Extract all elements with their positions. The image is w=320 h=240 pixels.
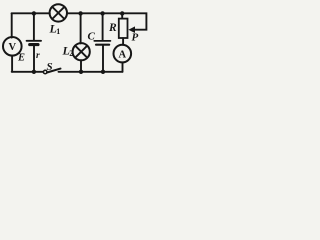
- svg-text:R: R: [108, 22, 117, 34]
- svg-text:A: A: [119, 49, 127, 60]
- svg-text:C: C: [88, 31, 96, 43]
- svg-text:2: 2: [69, 49, 73, 58]
- svg-text:S: S: [47, 61, 53, 73]
- svg-text:r: r: [36, 51, 40, 61]
- svg-text:P: P: [132, 31, 139, 43]
- svg-text:E: E: [17, 53, 25, 64]
- svg-text:1: 1: [56, 27, 60, 36]
- svg-text:V: V: [9, 42, 17, 53]
